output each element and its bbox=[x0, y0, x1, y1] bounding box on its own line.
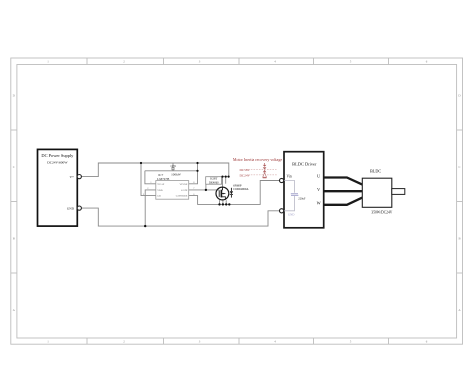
svg-text:B: B bbox=[13, 237, 15, 241]
svg-text:B: B bbox=[458, 237, 460, 241]
svg-text:GND: GND bbox=[67, 206, 75, 210]
svg-text:V+: V+ bbox=[69, 175, 74, 179]
svg-text:DK4060: DK4060 bbox=[209, 182, 219, 185]
svg-text:BLDC: BLDC bbox=[370, 168, 381, 173]
svg-text:Motor Inertia recovery voltage: Motor Inertia recovery voltage bbox=[233, 157, 282, 162]
svg-text:TC/AP: TC/AP bbox=[157, 183, 165, 186]
svg-text:100kW: 100kW bbox=[171, 173, 182, 177]
svg-text:VFUSE: VFUSE bbox=[179, 183, 187, 186]
svg-text:VDD: VDD bbox=[157, 189, 163, 192]
svg-text:BLDC Driver: BLDC Driver bbox=[292, 161, 317, 166]
svg-text:GND: GND bbox=[288, 213, 295, 217]
svg-text:GD: GD bbox=[157, 195, 161, 198]
svg-text:C: C bbox=[458, 165, 460, 169]
svg-text:C: C bbox=[13, 165, 15, 169]
svg-text:IGBT: IGBT bbox=[210, 176, 217, 180]
svg-text:C6D04060A: C6D04060A bbox=[233, 187, 249, 191]
svg-text:DC24V/600W: DC24V/600W bbox=[47, 161, 68, 165]
svg-text:Vin: Vin bbox=[287, 175, 292, 179]
svg-text:CATHODE: CATHODE bbox=[176, 195, 188, 198]
svg-text:DC58V: DC58V bbox=[239, 168, 250, 172]
svg-text:OH1: OH1 bbox=[170, 164, 176, 168]
svg-text:DC Power Supply: DC Power Supply bbox=[41, 153, 74, 158]
svg-text:LM747B: LM747B bbox=[157, 177, 170, 181]
svg-text:220uF: 220uF bbox=[298, 197, 306, 200]
svg-text:350W/DC24V: 350W/DC24V bbox=[371, 211, 392, 215]
svg-text:DC24V: DC24V bbox=[239, 173, 250, 177]
svg-text:GATE: GATE bbox=[181, 189, 188, 192]
